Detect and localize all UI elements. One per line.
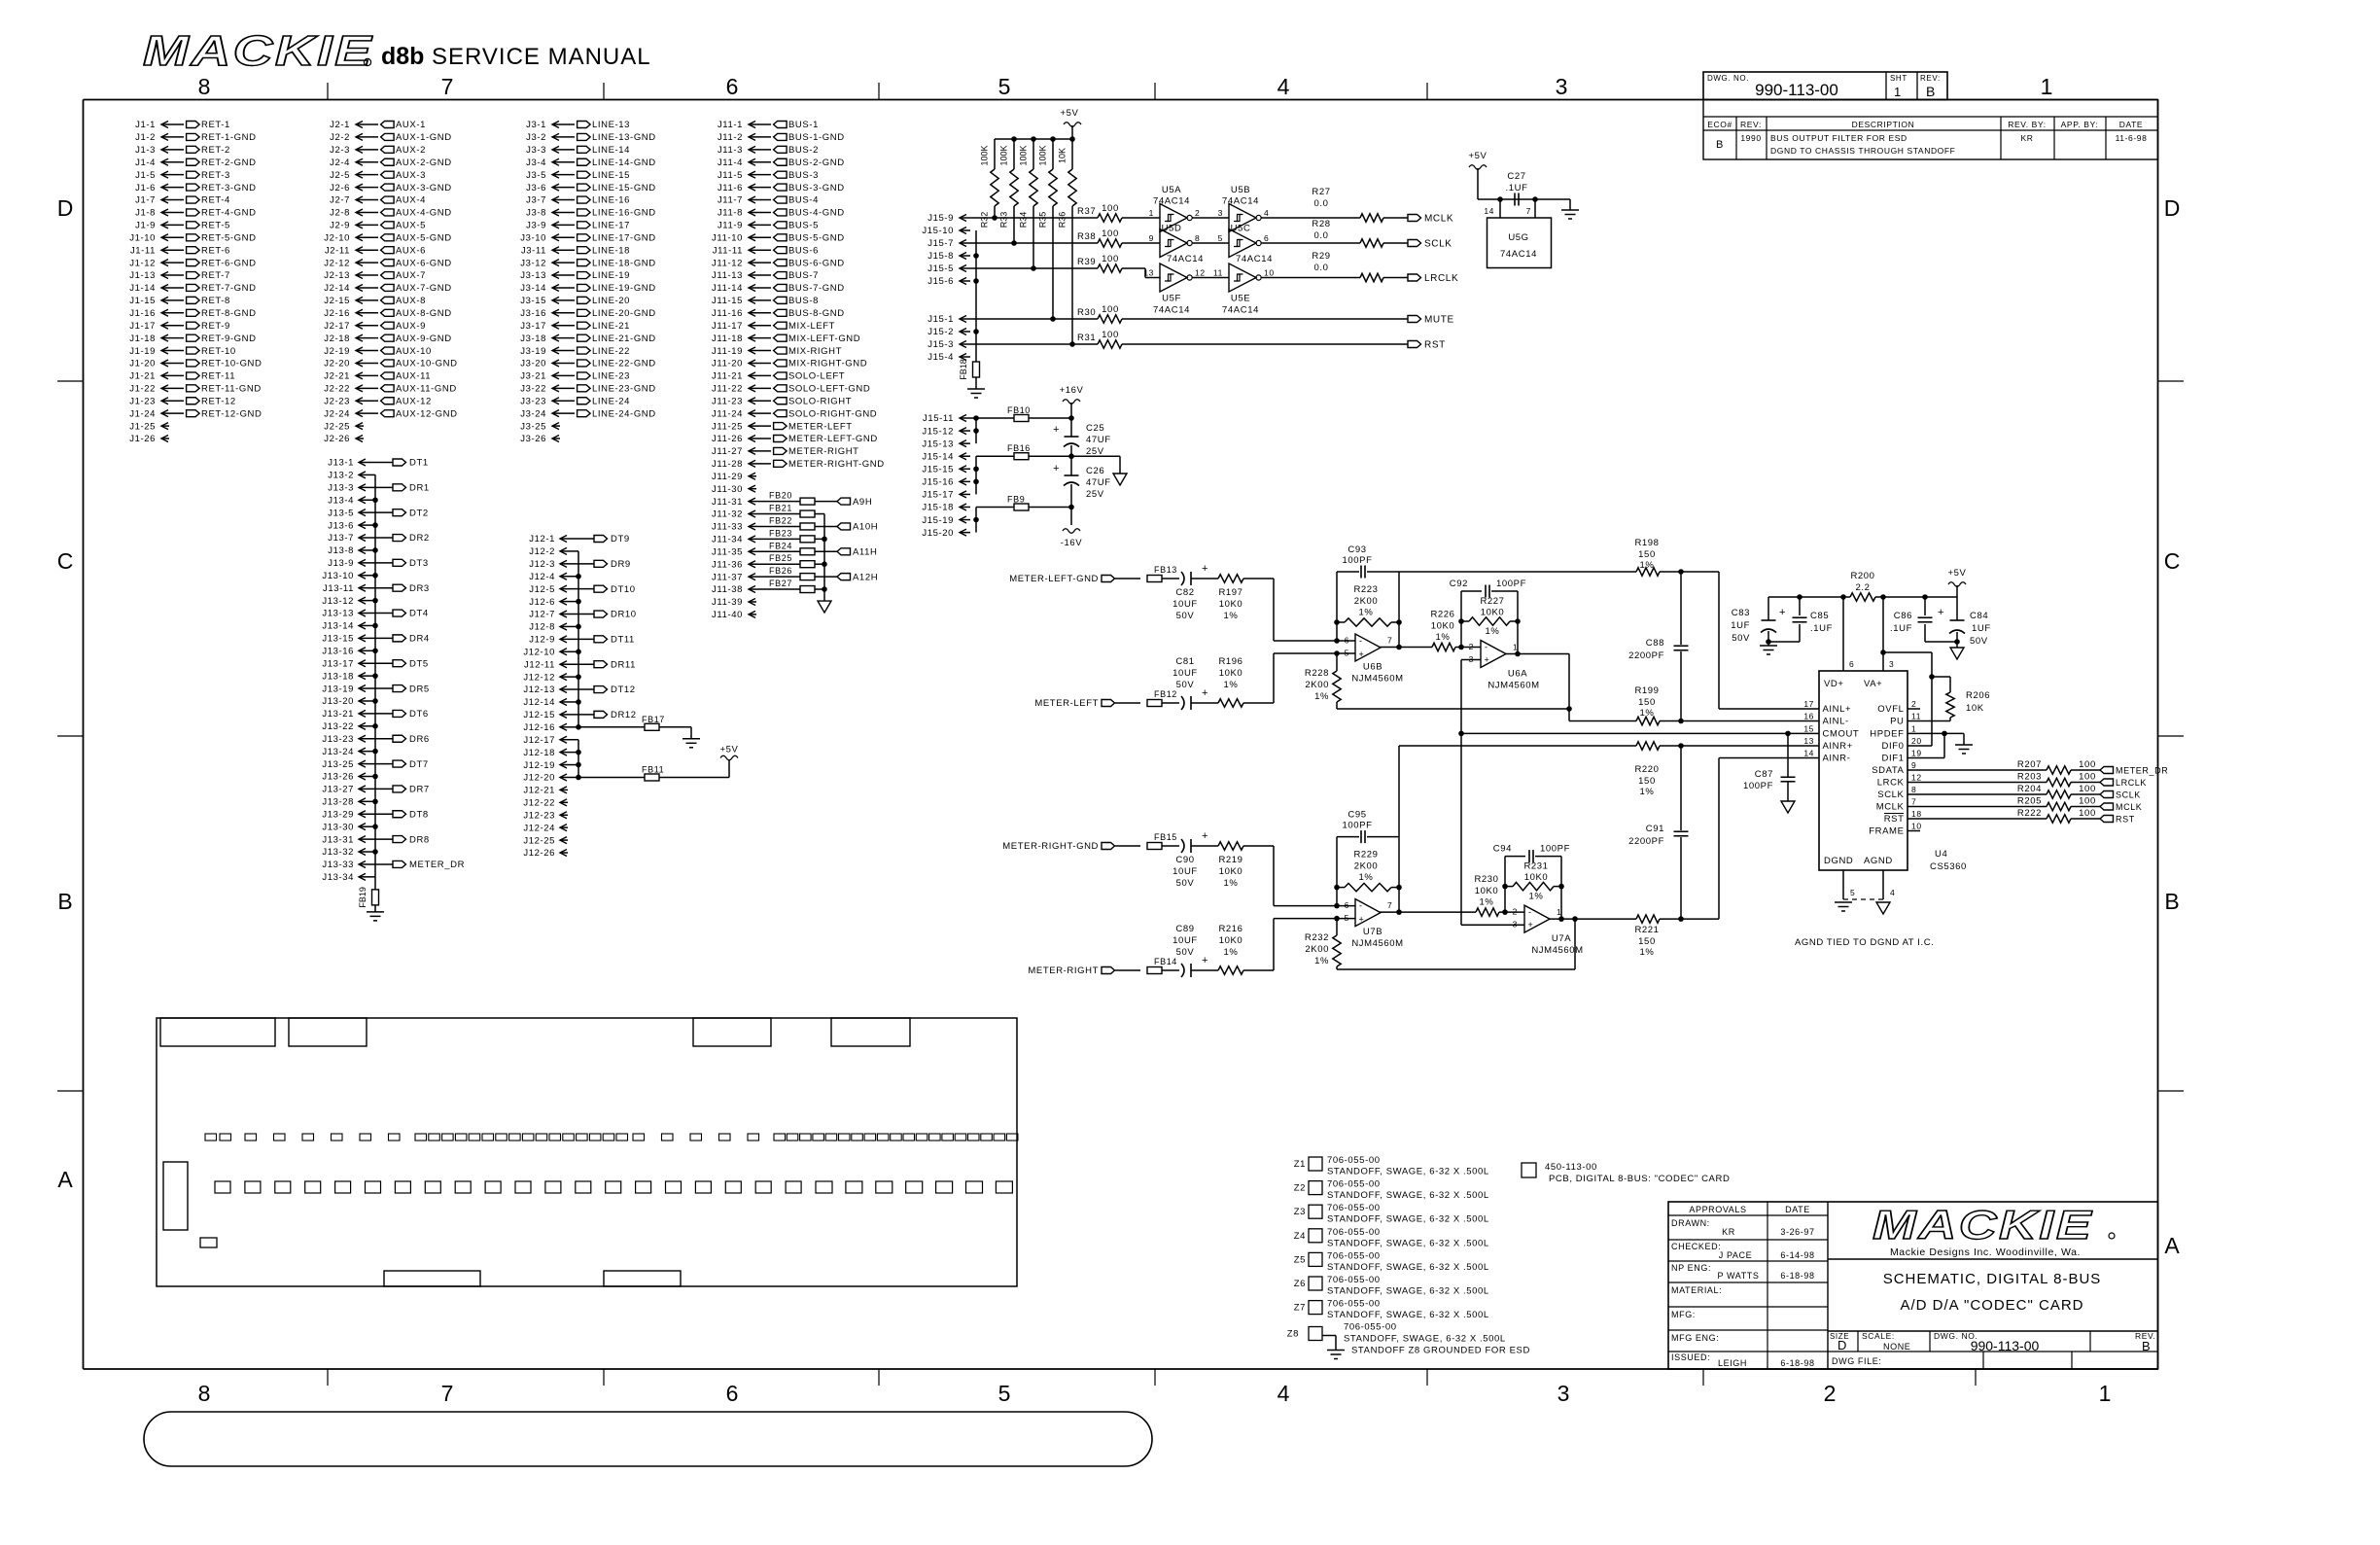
svg-text:SOLO-RIGHT: SOLO-RIGHT: [788, 396, 852, 406]
svg-text:DT5: DT5: [409, 658, 429, 669]
svg-text:BUS-6: BUS-6: [788, 245, 819, 256]
svg-text:SCLK: SCLK: [1877, 790, 1904, 800]
svg-text:J15-7: J15-7: [927, 238, 954, 249]
wire (R199 to AINL-): [1660, 719, 1806, 724]
svg-text:J1-4: J1-4: [135, 158, 156, 168]
svg-text:SOLO-LEFT: SOLO-LEFT: [788, 371, 845, 382]
svg-text:AUX-1-GND: AUX-1-GND: [396, 132, 452, 143]
svg-text:17: 17: [1803, 699, 1814, 709]
svg-text:J15-20: J15-20: [922, 528, 954, 539]
power +5V (U5G): [1469, 151, 1487, 199]
wire (J15-7 to SCLK chain): [970, 242, 1098, 244]
wire (U7A output): [1550, 918, 1636, 920]
svg-text:U7B: U7B: [1363, 927, 1382, 937]
drawing number box: [1703, 72, 1947, 100]
svg-text:ISSUED:: ISSUED:: [1671, 1352, 1710, 1362]
svg-text:NJM4560M: NJM4560M: [1351, 938, 1403, 949]
svg-text:J13-17: J13-17: [322, 658, 354, 669]
svg-text:25V: 25V: [1086, 489, 1104, 500]
wire (C86/C84 gnd): [1925, 639, 1960, 645]
svg-text:A12H: A12H: [853, 572, 878, 582]
ground (DGND): [1835, 902, 1852, 911]
svg-text:C85: C85: [1810, 611, 1829, 621]
svg-text:SOLO-RIGHT-GND: SOLO-RIGHT-GND: [788, 408, 877, 419]
resistor R29 0.0: [1312, 251, 1383, 282]
resistor R227 10K0: [1458, 596, 1521, 637]
svg-text:J1-5: J1-5: [135, 170, 156, 181]
svg-text:U5F: U5F: [1162, 294, 1181, 304]
title block horizontal dividers: [1828, 1259, 2158, 1352]
svg-text:J1-2: J1-2: [135, 132, 156, 143]
svg-text:STANDOFF, SWAGE, 6-32 X .500L: STANDOFF, SWAGE, 6-32 X .500L: [1327, 1310, 1489, 1320]
U4 pin 4 AGND stub: [1883, 870, 1895, 899]
svg-text:74AC14: 74AC14: [1167, 254, 1204, 264]
svg-text:100: 100: [1102, 228, 1119, 239]
svg-text:SCLK: SCLK: [1424, 239, 1452, 250]
svg-text:U5E: U5E: [1231, 294, 1250, 304]
svg-text:19: 19: [1911, 749, 1922, 758]
svg-text:ECO#: ECO#: [1707, 120, 1732, 129]
capacitor C93 100PF: [1337, 544, 1399, 641]
svg-text:706-055-00: 706-055-00: [1344, 1322, 1397, 1333]
svg-text:6: 6: [1849, 659, 1854, 669]
svg-text:J13-14: J13-14: [322, 621, 354, 632]
wire (HPDEF/DIF1 gnd tie): [1920, 731, 1964, 758]
svg-text:2.2: 2.2: [1855, 582, 1870, 593]
svg-text:12: 12: [1911, 773, 1922, 783]
svg-text:LINE-15: LINE-15: [592, 170, 630, 181]
title block MACKIE logo: [1872, 1203, 2115, 1258]
wire (R230 to U7A): [1499, 909, 1524, 915]
svg-text:CHECKED:: CHECKED:: [1671, 1242, 1721, 1251]
svg-text:RET-4: RET-4: [201, 195, 230, 206]
standoff Z2 706-055-00: [1294, 1179, 1489, 1202]
svg-text:50V: 50V: [1970, 636, 1988, 647]
svg-text:J13-21: J13-21: [322, 709, 354, 720]
svg-text:D: D: [1837, 1338, 1846, 1352]
svg-text:J15-15: J15-15: [922, 464, 954, 474]
svg-text:R38: R38: [1077, 231, 1096, 242]
U4 pin 5 DGND stub: [1843, 870, 1855, 899]
svg-text:R205: R205: [2017, 796, 2042, 807]
svg-text:2: 2: [1911, 699, 1916, 709]
svg-text:706-055-00: 706-055-00: [1327, 1203, 1381, 1213]
svg-text:R27: R27: [1312, 187, 1330, 197]
svg-text:LINE-20: LINE-20: [592, 296, 630, 306]
svg-text:LINE-21-GND: LINE-21-GND: [592, 334, 656, 344]
svg-text:J13-8: J13-8: [328, 545, 354, 556]
svg-text:LINE-21: LINE-21: [592, 321, 630, 332]
capacitor C88 2200PF: [1628, 572, 1690, 721]
svg-text:J3-12: J3-12: [520, 258, 546, 268]
svg-text:J3-1: J3-1: [526, 120, 546, 130]
svg-text:RET-11-GND: RET-11-GND: [201, 384, 262, 395]
svg-text:J2-24: J2-24: [324, 408, 350, 419]
svg-text:U5G: U5G: [1508, 232, 1528, 243]
svg-text:RET-3: RET-3: [201, 170, 230, 181]
svg-text:U5D: U5D: [1162, 224, 1182, 234]
svg-text:R220: R220: [1634, 764, 1659, 775]
svg-text:14: 14: [1484, 206, 1494, 216]
svg-text:4: 4: [1277, 74, 1290, 99]
terminal METER-LEFT with ferrite FB12 capacitor C81 resistor R196: [1034, 656, 1274, 710]
svg-text:LINE-16: LINE-16: [592, 195, 630, 206]
svg-text:LINE-20-GND: LINE-20-GND: [592, 308, 656, 319]
svg-text:AUX-10: AUX-10: [396, 346, 432, 357]
svg-text:AUX-1: AUX-1: [396, 120, 426, 130]
svg-text:6: 6: [1345, 636, 1349, 646]
svg-text:J12-21: J12-21: [523, 786, 555, 796]
svg-text:FB17: FB17: [642, 715, 665, 724]
svg-text:R207: R207: [2017, 759, 2042, 770]
terminal METER-RIGHT-GND with ferrite FB15 capacitor C90 resistor R219: [1002, 830, 1274, 889]
ferrite bead FB17: [576, 715, 691, 731]
wire (VD+/VA+ rail): [1768, 594, 1957, 600]
resistor R198 150: [1399, 538, 1660, 576]
standoff Z5 706-055-00: [1294, 1250, 1489, 1273]
svg-text:LINE-23-GND: LINE-23-GND: [592, 384, 656, 395]
svg-text:B: B: [1926, 84, 1935, 99]
svg-text:1%: 1%: [1640, 560, 1655, 571]
svg-text:D: D: [57, 195, 74, 221]
svg-text:J13-33: J13-33: [322, 860, 354, 870]
U4 left pins: [1803, 699, 1859, 764]
svg-text:Z7: Z7: [1294, 1303, 1306, 1314]
svg-text:18: 18: [1911, 809, 1922, 819]
svg-text:1: 1: [2099, 1381, 2112, 1406]
svg-text:1%: 1%: [1314, 956, 1329, 966]
wire (C83/C85 gnd): [1766, 639, 1800, 645]
svg-text:50V: 50V: [1176, 680, 1195, 690]
svg-text:50V: 50V: [1176, 611, 1195, 621]
svg-text:R36: R36: [1058, 212, 1067, 228]
svg-text:STANDOFF, SWAGE, 6-32 X .500L: STANDOFF, SWAGE, 6-32 X .500L: [1344, 1334, 1506, 1345]
wire (U5C out to R28): [1261, 242, 1360, 244]
svg-text:FB10: FB10: [1007, 405, 1031, 415]
svg-text:MACKIE: MACKIE: [143, 26, 373, 75]
U4 right pins: [1869, 699, 1921, 837]
svg-text:C84: C84: [1970, 611, 1988, 621]
svg-text:LINE-15-GND: LINE-15-GND: [592, 183, 656, 193]
ferrite bead FB19: [358, 887, 379, 908]
svg-text:1%: 1%: [1436, 632, 1451, 643]
wire (J15 ground bus): [973, 230, 979, 362]
wire (meter right to U7B+): [1274, 916, 1355, 970]
svg-text:706-055-00: 706-055-00: [1327, 1299, 1381, 1310]
resistor R36 10K pull-up: [1058, 139, 1077, 347]
svg-text:J1-12: J1-12: [129, 258, 156, 268]
svg-text:J2-14: J2-14: [324, 283, 350, 294]
svg-text:R199: R199: [1634, 685, 1659, 696]
wire (R226 to U6A): [1455, 645, 1481, 650]
svg-text:+: +: [1202, 563, 1208, 575]
title block grid: [1668, 1202, 2158, 1369]
svg-text:C86: C86: [1894, 611, 1912, 621]
resistor R31 100: [1077, 330, 1122, 348]
ferrite bead FB18: [959, 359, 980, 380]
svg-text:47UF: 47UF: [1086, 435, 1111, 445]
svg-text:LINE-16-GND: LINE-16-GND: [592, 208, 656, 219]
svg-text:J13-1: J13-1: [328, 458, 354, 469]
svg-text:R28: R28: [1312, 219, 1330, 229]
svg-text:J2-5: J2-5: [330, 170, 350, 181]
svg-text:J3-5: J3-5: [526, 170, 546, 181]
svg-text:3: 3: [1889, 659, 1894, 669]
svg-text:+: +: [1938, 607, 1944, 618]
terminal MCLK: [2100, 802, 2142, 812]
svg-text:4: 4: [1277, 1381, 1290, 1406]
svg-text:FB20: FB20: [769, 491, 792, 501]
svg-text:NJM4560M: NJM4560M: [1351, 674, 1403, 685]
svg-text:B: B: [57, 889, 72, 914]
svg-text:SCLK: SCLK: [2116, 790, 2141, 800]
svg-text:47UF: 47UF: [1086, 477, 1111, 488]
wire (U6A output drop): [1506, 654, 1636, 721]
svg-text:3-26-97: 3-26-97: [1780, 1227, 1814, 1237]
IC U4 CS5360 body: [1819, 671, 1967, 872]
svg-text:RST: RST: [2116, 815, 2135, 825]
svg-text:DT8: DT8: [409, 809, 429, 820]
svg-text:J1-20: J1-20: [129, 359, 156, 369]
svg-text:J13-19: J13-19: [322, 684, 354, 694]
svg-text:MCLK: MCLK: [1424, 214, 1453, 225]
svg-text:C90: C90: [1175, 855, 1194, 865]
svg-text:DT11: DT11: [611, 635, 635, 646]
svg-text:AUX-12: AUX-12: [396, 396, 432, 406]
svg-text:J11-36: J11-36: [712, 559, 743, 570]
svg-text:J1-21: J1-21: [129, 371, 156, 382]
standoff Z6 706-055-00: [1294, 1275, 1489, 1297]
svg-text:J12-3: J12-3: [529, 559, 555, 570]
svg-text:100PF: 100PF: [1743, 781, 1773, 791]
svg-text:J1-23: J1-23: [129, 396, 156, 406]
terminal SCLK: [2100, 790, 2141, 800]
svg-text:J2-26: J2-26: [324, 434, 350, 444]
svg-text:J12-15: J12-15: [523, 710, 555, 720]
svg-text:7: 7: [441, 74, 454, 99]
svg-text:J15-4: J15-4: [927, 352, 954, 363]
resistor R220 150: [1634, 742, 1660, 797]
resistor R38 100: [1077, 228, 1122, 247]
svg-text:13: 13: [1803, 736, 1814, 746]
capacitor C95 100PF: [1337, 810, 1399, 906]
svg-text:SCALE:: SCALE:: [1862, 1331, 1895, 1341]
svg-text:RET-9: RET-9: [201, 321, 230, 332]
svg-text:J2-9: J2-9: [330, 221, 350, 231]
svg-text:J2-22: J2-22: [324, 384, 350, 395]
svg-text:J15-2: J15-2: [927, 327, 954, 337]
svg-text:DT9: DT9: [611, 534, 630, 544]
svg-text:10UF: 10UF: [1172, 866, 1198, 877]
svg-text:BUS-7-GND: BUS-7-GND: [788, 283, 845, 294]
wire (U5A out to U5B): [1193, 217, 1229, 219]
U4 pin 3 VA+ stub: [1883, 597, 1894, 671]
resistor R223 2K00: [1334, 584, 1402, 626]
svg-text:74AC14: 74AC14: [1236, 254, 1273, 264]
svg-text:J13-3: J13-3: [328, 483, 354, 494]
svg-text:J2-4: J2-4: [330, 158, 350, 168]
svg-text:J2-16: J2-16: [324, 308, 350, 319]
svg-text:J11-11: J11-11: [713, 245, 743, 256]
svg-text:J11-10: J11-10: [712, 232, 743, 243]
svg-text:J11-20: J11-20: [712, 359, 743, 369]
svg-text:J1-19: J1-19: [129, 346, 156, 357]
svg-text:LINE-24: LINE-24: [592, 396, 630, 406]
svg-text:J11-25: J11-25: [712, 421, 743, 432]
svg-text:J13-20: J13-20: [322, 696, 354, 707]
svg-text:AUX-2: AUX-2: [396, 145, 426, 156]
standoff Z1 706-055-00: [1294, 1155, 1489, 1177]
svg-text:J12-10: J12-10: [523, 647, 555, 657]
svg-text:J2-3: J2-3: [330, 145, 350, 156]
capacitor C86 .1UF: [1890, 597, 1933, 642]
svg-text:+: +: [1053, 424, 1060, 436]
terminal LRCLK: [1408, 273, 1458, 284]
svg-text:J12-11: J12-11: [524, 659, 555, 670]
capacitor C27 .1UF: [1506, 171, 1528, 206]
svg-text:BUS-1: BUS-1: [788, 120, 819, 130]
svg-text:J1-16: J1-16: [129, 308, 156, 319]
svg-text:100: 100: [1102, 330, 1119, 340]
wire (AGND-DGND dashed tie): [1843, 898, 1883, 900]
svg-text:J13-34: J13-34: [322, 872, 354, 883]
svg-text:706-055-00: 706-055-00: [1327, 1179, 1381, 1190]
svg-text:Z1: Z1: [1294, 1159, 1306, 1170]
U4 pin 6 VD+ stub: [1843, 597, 1854, 671]
svg-text:APP. BY:: APP. BY:: [2061, 120, 2099, 129]
svg-text:-: -: [1528, 907, 1532, 917]
svg-text:706-055-00: 706-055-00: [1327, 1275, 1381, 1285]
title block size/scale/dwg row: [1830, 1331, 2155, 1353]
svg-text:B: B: [2164, 889, 2179, 914]
svg-text:Z8: Z8: [1287, 1329, 1299, 1340]
svg-text:1: 1: [2041, 74, 2053, 99]
power +5V (pullup rail): [1061, 108, 1081, 139]
svg-text:J2-10: J2-10: [324, 232, 350, 243]
ferrite bead FB16: [976, 443, 1074, 460]
svg-text:J13-32: J13-32: [322, 847, 354, 858]
svg-text:FB21: FB21: [769, 504, 792, 513]
svg-text:PU: PU: [1890, 717, 1904, 727]
note AGND: [1795, 937, 1934, 948]
svg-text:APPROVALS: APPROVALS: [1689, 1205, 1746, 1214]
svg-text:100PF: 100PF: [1540, 844, 1570, 855]
svg-text:SOLO-LEFT-GND: SOLO-LEFT-GND: [788, 384, 870, 395]
svg-text:100: 100: [2079, 808, 2096, 819]
wire (meter right gnd to U7B-): [1274, 846, 1355, 908]
resistor R39 100: [1077, 254, 1122, 272]
svg-text:DR12: DR12: [611, 710, 637, 720]
PCB part 450-113-00: [1522, 1162, 1730, 1184]
svg-text:6: 6: [726, 74, 739, 99]
connector J1 pin list: [129, 120, 262, 444]
svg-text:J15-3: J15-3: [927, 339, 954, 350]
svg-text:1UF: 1UF: [1972, 623, 1991, 634]
svg-text:R230: R230: [1474, 874, 1498, 885]
svg-text:J12-6: J12-6: [529, 597, 555, 608]
svg-text:MIX-RIGHT: MIX-RIGHT: [788, 346, 842, 357]
svg-text:5: 5: [1345, 649, 1349, 658]
svg-text:BUS-5-GND: BUS-5-GND: [788, 232, 845, 243]
svg-text:LINE-13-GND: LINE-13-GND: [592, 132, 656, 143]
svg-text:R34: R34: [1019, 212, 1029, 228]
wire (R31 to RST): [1122, 343, 1408, 345]
svg-text:74AC14: 74AC14: [1153, 196, 1190, 207]
svg-text:DT3: DT3: [409, 558, 429, 569]
svg-text:AUX-3: AUX-3: [396, 170, 426, 181]
wire (U7B output): [1380, 911, 1476, 913]
svg-text:J2-11: J2-11: [325, 245, 350, 256]
inverter U5A 74AC14: [1149, 185, 1201, 232]
svg-text:LRCLK: LRCLK: [2116, 778, 2147, 788]
svg-text:DR4: DR4: [409, 634, 430, 645]
resistor R226 10K0: [1430, 610, 1455, 651]
svg-text:DGND: DGND: [1824, 856, 1853, 866]
svg-text:DR9: DR9: [611, 559, 631, 570]
svg-text:J12-20: J12-20: [523, 773, 555, 784]
svg-text:100K: 100K: [980, 145, 990, 165]
svg-text:6: 6: [1345, 900, 1349, 910]
svg-text:J1-15: J1-15: [129, 296, 156, 306]
svg-text:RET-10: RET-10: [201, 346, 236, 357]
svg-text:3: 3: [1556, 74, 1568, 99]
svg-text:J1-26: J1-26: [129, 434, 156, 444]
svg-text:J11-17: J11-17: [712, 321, 743, 332]
svg-text:2200PF: 2200PF: [1628, 836, 1664, 847]
svg-text:1%: 1%: [1640, 708, 1655, 719]
svg-text:J3-10: J3-10: [520, 232, 546, 243]
svg-text:J1-17: J1-17: [129, 321, 156, 332]
svg-text:VA+: VA+: [1864, 679, 1882, 689]
svg-text:10K0: 10K0: [1219, 935, 1243, 946]
svg-text:10UF: 10UF: [1172, 599, 1198, 610]
svg-text:AUX-6: AUX-6: [396, 245, 426, 256]
svg-text:J2-6: J2-6: [330, 183, 350, 193]
svg-text:J3-14: J3-14: [520, 283, 546, 294]
PCB pad row lower: [215, 1181, 1012, 1193]
ground (U5G): [1561, 199, 1579, 219]
svg-text:STANDOFF, SWAGE, 6-32 X .500L: STANDOFF, SWAGE, 6-32 X .500L: [1327, 1238, 1489, 1248]
wire (R29 to LRCLK): [1383, 277, 1408, 279]
svg-text:FRAME: FRAME: [1869, 826, 1904, 837]
svg-text:CS5360: CS5360: [1930, 861, 1967, 872]
svg-text:1%: 1%: [1486, 626, 1500, 637]
svg-text:+5V: +5V: [1948, 568, 1967, 579]
svg-text:J13-26: J13-26: [322, 772, 354, 783]
svg-text:J13-4: J13-4: [328, 495, 354, 506]
svg-text:SDATA: SDATA: [1872, 765, 1904, 776]
wire (U6B output): [1380, 647, 1432, 649]
svg-text:990-113-00: 990-113-00: [1755, 81, 1838, 99]
svg-text:150: 150: [1638, 549, 1656, 560]
svg-text:RET-5-GND: RET-5-GND: [201, 232, 257, 243]
svg-text:J11-32: J11-32: [712, 509, 743, 520]
power +5V (codec): [1948, 568, 1967, 597]
svg-text:J13-18: J13-18: [322, 671, 354, 682]
svg-text:706-055-00: 706-055-00: [1327, 1155, 1381, 1166]
svg-text:R219: R219: [1218, 855, 1242, 865]
svg-text:LRCLK: LRCLK: [1424, 273, 1458, 284]
svg-text:50V: 50V: [1176, 878, 1195, 889]
svg-text:AUX-6-GND: AUX-6-GND: [396, 258, 452, 268]
svg-text:FB14: FB14: [1154, 957, 1177, 966]
svg-text:J11-9: J11-9: [717, 221, 743, 231]
resistor R229 2K00: [1334, 850, 1402, 892]
svg-text:11: 11: [1911, 712, 1921, 721]
svg-text:11: 11: [1213, 268, 1223, 278]
svg-text:R203: R203: [2017, 772, 2042, 783]
svg-text:J13-9: J13-9: [328, 558, 354, 569]
